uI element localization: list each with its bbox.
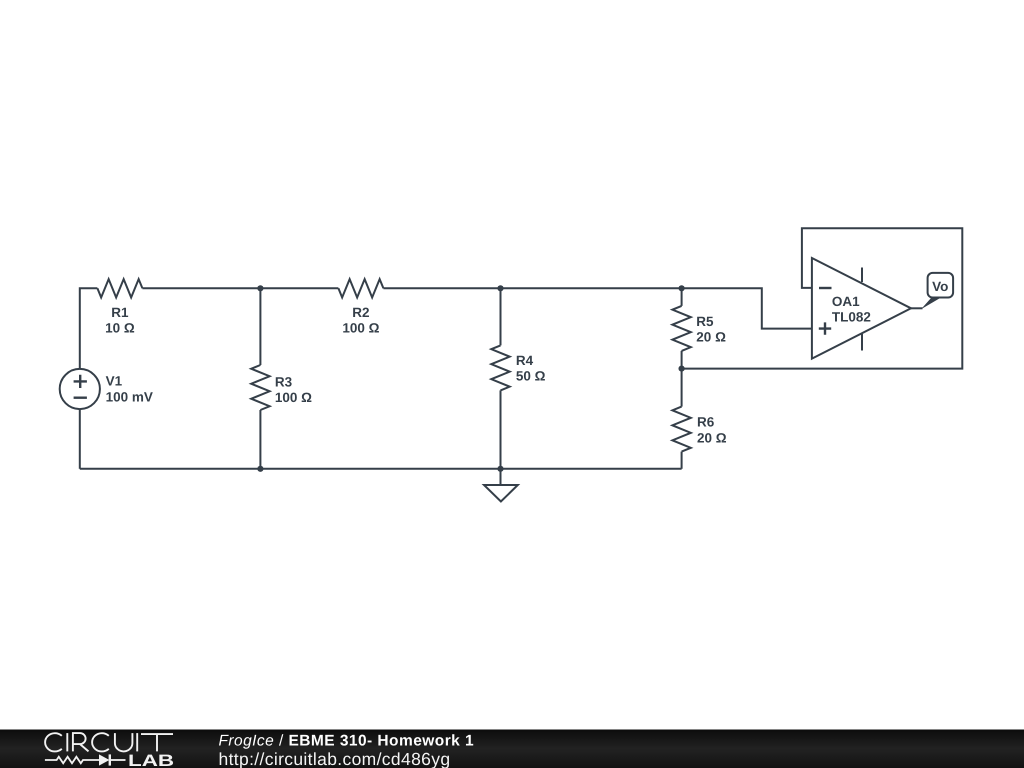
- ground: [484, 485, 518, 502]
- svg-text:FrogIce / EBME 310- Homework 1: FrogIce / EBME 310- Homework 1: [219, 732, 475, 749]
- resistor R4: [491, 345, 509, 390]
- footer bar: [0, 730, 1024, 768]
- resistor R5: [672, 306, 690, 351]
- net flag Vo box: [928, 273, 954, 298]
- voltage source V1: [60, 369, 100, 409]
- svg-text:V1: V1: [106, 373, 123, 388]
- wire R5 bottom lead: [681, 351, 683, 369]
- op-amp output wire: [911, 307, 923, 309]
- wire feedback loop from node B around op-amp to inverting input: [682, 228, 963, 368]
- resistor R2: [338, 279, 383, 297]
- wire R1 to R2 (node A segment): [142, 287, 338, 289]
- CircuitLab logo resistor-diode glyph: [45, 754, 126, 765]
- svg-text:100 Ω: 100 Ω: [275, 390, 312, 405]
- svg-text:Vo: Vo: [932, 279, 948, 294]
- svg-text:20 Ω: 20 Ω: [696, 330, 726, 345]
- op-amp minus input sign: [819, 287, 832, 289]
- resistor R6: [672, 407, 690, 452]
- svg-text:10 Ω: 10 Ω: [105, 321, 135, 336]
- svg-text:OA1: OA1: [832, 294, 860, 309]
- op-amp V+ power pin tick: [861, 268, 863, 283]
- wire R4 top lead: [500, 288, 502, 345]
- resistor R3: [251, 365, 269, 410]
- svg-text:50 Ω: 50 Ω: [516, 369, 546, 384]
- junction node R4 top: [497, 285, 503, 291]
- wire R3 top lead: [259, 288, 261, 365]
- ground stem wire: [500, 469, 502, 485]
- junction node R3 bottom: [257, 466, 263, 472]
- V1 plus sign: [74, 375, 87, 388]
- wire R6 top lead: [681, 369, 683, 407]
- net flag Vo pointer: [921, 298, 941, 310]
- svg-text:TL082: TL082: [832, 310, 871, 325]
- svg-text:100 mV: 100 mV: [106, 390, 153, 405]
- op-amp V- power pin tick: [861, 334, 863, 351]
- wire R4 bottom lead: [500, 390, 502, 468]
- wire V1 bottom to ground rail: [79, 409, 81, 469]
- resistor R1: [97, 279, 142, 297]
- svg-text:R5: R5: [696, 314, 714, 329]
- wire R6 bottom lead: [681, 452, 683, 469]
- junction node R5 top: [679, 285, 685, 291]
- wire bottom rail: [80, 468, 682, 470]
- wire R2 to op-amp corner (top net): [383, 288, 812, 328]
- svg-text:R4: R4: [516, 353, 534, 368]
- junction node R5/R6 (node B): [679, 366, 685, 372]
- junction node R4 bottom: [497, 466, 503, 472]
- svg-text:LAB: LAB: [128, 752, 174, 768]
- svg-text:http://circuitlab.com/cd486yg: http://circuitlab.com/cd486yg: [219, 749, 451, 768]
- svg-text:R1: R1: [111, 305, 129, 320]
- CircuitLab logo CIRCUIT letters: [45, 733, 173, 751]
- wire top-left: V1 top to R1: [80, 288, 98, 369]
- V1 minus sign: [74, 397, 87, 399]
- wire R5 top lead: [681, 288, 683, 306]
- wire R3 bottom lead: [259, 410, 261, 469]
- svg-text:20 Ω: 20 Ω: [697, 430, 727, 445]
- op-amp plus input sign: [819, 322, 831, 334]
- junction node R3 top: [257, 285, 263, 291]
- svg-text:R6: R6: [697, 415, 715, 430]
- svg-text:R2: R2: [352, 305, 369, 320]
- op-amp U1 triangle: [812, 258, 911, 359]
- svg-text:100 Ω: 100 Ω: [342, 321, 379, 336]
- svg-text:R3: R3: [275, 374, 293, 389]
